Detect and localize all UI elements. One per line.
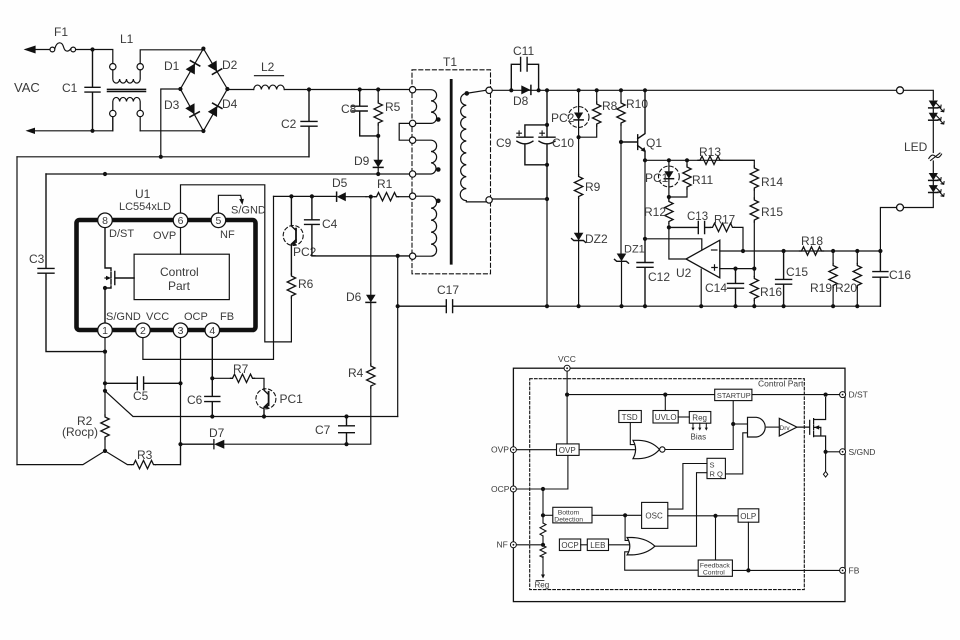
- svg-text:C2: C2: [281, 117, 297, 131]
- svg-text:R3: R3: [137, 448, 153, 462]
- svg-text:NF: NF: [220, 229, 235, 241]
- svg-text:C6: C6: [187, 393, 203, 407]
- svg-text:C11: C11: [513, 44, 534, 58]
- block Bottom Detection: [543, 514, 553, 516]
- wire: pin1 source net: [104, 338, 106, 391]
- svg-text:Feedback: Feedback: [700, 562, 730, 569]
- svg-text:Q: Q: [717, 470, 723, 479]
- svg-text:R15: R15: [761, 205, 783, 219]
- wire: inverting input line: [720, 250, 881, 252]
- svg-text:U2: U2: [676, 266, 692, 280]
- svg-text:R8: R8: [602, 99, 618, 113]
- svg-text:R7: R7: [233, 362, 249, 376]
- svg-text:R12: R12: [644, 205, 666, 219]
- svg-text:PC2: PC2: [551, 111, 575, 125]
- svg-text:R14: R14: [761, 175, 783, 189]
- wire: AC line bottom: [35, 117, 203, 131]
- U1 control part box: [134, 254, 229, 299]
- wire: D/ST net (drain line): [46, 173, 409, 175]
- svg-text:C10: C10: [552, 136, 574, 150]
- svg-text:D3: D3: [164, 98, 180, 112]
- svg-text:C17: C17: [437, 283, 459, 297]
- wire: S/GND diagonal and line: [105, 391, 398, 417]
- svg-text:C13: C13: [687, 211, 708, 223]
- svg-text:D5: D5: [332, 176, 348, 190]
- wire: left vertical bus: [16, 157, 18, 465]
- svg-text:R11: R11: [692, 173, 713, 187]
- svg-text:OSC: OSC: [645, 512, 663, 521]
- resistor R9: [578, 137, 580, 174]
- svg-text:Q1: Q1: [646, 136, 662, 150]
- wire: pin3 OCP net: [180, 338, 182, 465]
- svg-text:Bottom: Bottom: [558, 509, 580, 516]
- svg-text:C16: C16: [889, 268, 911, 282]
- capacitor C4: [305, 196, 410, 256]
- wire: NOR output to AND: [665, 402, 733, 450]
- LED D-led3: [932, 161, 934, 173]
- fuse F1: [50, 43, 76, 52]
- svg-text:5: 5: [215, 215, 221, 227]
- wire: OSC out to OLP and feedback: [668, 515, 738, 517]
- svg-text:R18: R18: [801, 234, 823, 248]
- block UVLO: [653, 411, 678, 424]
- MOSFET (block): [797, 398, 826, 452]
- block STARTUP: [715, 389, 752, 400]
- resistor R5: [377, 90, 379, 102]
- resistor R7: [212, 377, 230, 379]
- U1 pin 8: [98, 213, 113, 228]
- wire: rectified DC rail to transformer: [227, 89, 409, 91]
- block Reg: [689, 412, 711, 424]
- wire: LEB to OR: [609, 544, 630, 546]
- diode D8: [521, 85, 530, 94]
- diode D3: [185, 103, 199, 117]
- svg-text:OCP: OCP: [491, 484, 510, 494]
- diode D4: [208, 103, 222, 117]
- photocoupler PC2 phototransistor: [291, 196, 296, 274]
- svg-text:C7: C7: [315, 423, 331, 437]
- photocoupler PC1 LED: [668, 160, 670, 171]
- svg-text:VCC: VCC: [146, 311, 169, 323]
- wire: VCC internal: [566, 371, 568, 444]
- T1 primary winding upper: [416, 90, 437, 124]
- resistor R19: [832, 251, 834, 264]
- block diagram outer box: [513, 368, 845, 601]
- svg-text:D4: D4: [222, 97, 238, 111]
- wire: AC line top: [26, 46, 113, 63]
- svg-text:R13: R13: [699, 145, 721, 159]
- svg-text:LED: LED: [904, 140, 928, 154]
- svg-text:OVP: OVP: [491, 445, 509, 455]
- wire: NF internal ladder: [542, 489, 544, 576]
- svg-text:C8: C8: [341, 102, 357, 116]
- transformer T1 core: [450, 80, 453, 263]
- wire: feedback loop to OR: [625, 552, 699, 570]
- svg-text:L2: L2: [261, 60, 275, 74]
- wire: bridge negative to ground rail: [161, 89, 181, 157]
- wire: Q to AND: [725, 433, 747, 474]
- op-amp U2 supply line: [645, 239, 702, 250]
- svg-text:C12: C12: [648, 270, 670, 284]
- U1 pin 6: [173, 213, 188, 228]
- svg-text:C15: C15: [786, 265, 808, 279]
- resistor R15: [750, 198, 758, 222]
- svg-text:R20: R20: [835, 281, 857, 295]
- transistor Q1: [621, 90, 645, 160]
- resistor R12: [668, 197, 670, 200]
- svg-text:PC2: PC2: [293, 245, 317, 259]
- svg-text:OCP: OCP: [184, 311, 208, 323]
- svg-text:LEB: LEB: [590, 541, 605, 550]
- svg-text:3: 3: [178, 325, 184, 337]
- resistor R11: [686, 160, 688, 165]
- svg-text:D8: D8: [513, 94, 529, 108]
- svg-text:C4: C4: [322, 217, 338, 231]
- wire: startup rail: [567, 394, 840, 396]
- common-mode choke L1: [108, 50, 204, 131]
- svg-text:D6: D6: [346, 290, 362, 304]
- svg-text:S: S: [710, 460, 715, 469]
- svg-text:8: 8: [102, 215, 108, 227]
- pin D/ST (block): [840, 392, 846, 398]
- svg-text:Control: Control: [160, 265, 199, 279]
- resistor R14: [750, 166, 758, 190]
- svg-text:F1: F1: [54, 25, 68, 39]
- svg-text:1: 1: [102, 325, 108, 337]
- block OLP: [738, 509, 759, 522]
- wire: TSD to NOR: [630, 423, 635, 445]
- block OSC: [642, 502, 668, 528]
- capacitor C3: [38, 174, 105, 352]
- svg-text:Detection: Detection: [554, 516, 583, 523]
- svg-text:NF: NF: [497, 540, 508, 550]
- svg-text:R4: R4: [348, 366, 364, 380]
- wire: OVP box output to NOR: [579, 449, 635, 451]
- svg-text:LC554xLD: LC554xLD: [119, 201, 171, 213]
- wire: primary section link: [399, 123, 409, 140]
- capacitor C17: [398, 300, 547, 313]
- resistor R17: [711, 223, 735, 231]
- capacitor C16: [873, 251, 888, 306]
- resistor R2 (Rocp): [104, 391, 106, 415]
- node: C1 taps: [90, 47, 94, 51]
- svg-text:OCP: OCP: [561, 541, 578, 550]
- svg-text:T1: T1: [443, 55, 457, 69]
- diode D1: [186, 61, 200, 75]
- svg-text:D2: D2: [222, 58, 238, 72]
- U1 internal MOSFET: [105, 228, 134, 323]
- block OCP comparator: [559, 539, 580, 551]
- svg-text:R6: R6: [298, 277, 314, 291]
- svg-text:Control: Control: [703, 569, 725, 576]
- block TSD: [619, 411, 642, 423]
- LED D-led4: [932, 180, 934, 185]
- node: bridge vertices: [201, 47, 205, 51]
- svg-text:6: 6: [178, 215, 184, 227]
- svg-text:VAC: VAC: [14, 80, 40, 95]
- svg-text:Reg: Reg: [535, 581, 550, 590]
- T1 primary winding lower: [416, 140, 437, 174]
- svg-text:D/ST: D/ST: [109, 228, 134, 240]
- wire: VCC riser to pin2: [143, 196, 274, 359]
- svg-text:Reg: Reg: [692, 414, 707, 423]
- resistor R16: [753, 269, 755, 277]
- block Feedback Control: [698, 560, 732, 576]
- svg-text:R9: R9: [585, 180, 601, 194]
- wire: FB line: [732, 569, 839, 571]
- pin S/GND (block): [826, 451, 840, 453]
- svg-text:(Rocp): (Rocp): [62, 425, 98, 439]
- gate OR (ocp logic): [627, 538, 655, 555]
- source sense diamond: [825, 452, 827, 472]
- svg-text:UVLO: UVLO: [655, 413, 677, 422]
- svg-text:D1: D1: [164, 59, 180, 73]
- wire: bottom detection to OSC: [592, 514, 642, 516]
- resistor R20: [856, 251, 858, 264]
- diode D6: [370, 197, 372, 295]
- resistor R13: [698, 156, 722, 164]
- svg-text:FB: FB: [220, 311, 234, 323]
- wire: S/GND riser to C17 node: [397, 256, 399, 417]
- svg-text:C5: C5: [133, 389, 149, 403]
- driver Drv: [766, 426, 779, 428]
- capacitor C11: [511, 58, 538, 91]
- zener DZ2: [572, 233, 586, 243]
- Bias taps: [693, 423, 706, 429]
- resistor R3: [132, 460, 156, 468]
- svg-text:S/GND: S/GND: [849, 447, 876, 457]
- diode D7: [181, 440, 214, 449]
- svg-text:R5: R5: [385, 100, 401, 114]
- svg-text:R19: R19: [810, 281, 832, 295]
- U1 pin 2: [136, 323, 151, 338]
- bridge rectifier diamond wires: [180, 49, 227, 131]
- LED D-led1: [929, 101, 938, 108]
- node: kelvin junction under R2: [17, 451, 132, 465]
- svg-text:2: 2: [140, 325, 146, 337]
- svg-text:TSD: TSD: [622, 413, 638, 422]
- output terminal top: [897, 87, 904, 94]
- wire: VCC node line: [274, 195, 337, 197]
- svg-text:C1: C1: [62, 81, 78, 95]
- svg-text:4: 4: [209, 325, 215, 337]
- T1 secondary winding: [460, 90, 486, 202]
- svg-text:R1: R1: [377, 177, 393, 191]
- svg-text:Part: Part: [168, 279, 191, 293]
- U1 pin 3: [173, 323, 188, 338]
- svg-text:C9: C9: [496, 136, 512, 150]
- svg-text:Bias: Bias: [691, 433, 707, 442]
- svg-text:U1: U1: [135, 187, 151, 201]
- resistor R18: [800, 247, 824, 255]
- zener DZ1: [620, 142, 622, 254]
- pin FB (block): [840, 567, 846, 573]
- svg-text:DZ2: DZ2: [585, 232, 608, 246]
- svg-text:D/ST: D/ST: [849, 390, 868, 400]
- diode D9: [377, 136, 379, 160]
- svg-text:S/GND: S/GND: [231, 205, 266, 217]
- svg-text:PC1: PC1: [645, 171, 669, 185]
- wire: secondary top rail: [493, 89, 897, 91]
- svg-text:DZ1: DZ1: [624, 244, 645, 256]
- IC U1 body: [77, 220, 256, 330]
- electrolytic C9: [517, 90, 547, 165]
- wire: non-inverting input line: [720, 268, 755, 270]
- svg-text:L1: L1: [120, 32, 134, 46]
- resistor R6: [287, 274, 295, 298]
- svg-text:STARTUP: STARTUP: [717, 391, 751, 400]
- wire: OR output to R input: [655, 473, 707, 547]
- wire: OSC to S input: [668, 464, 707, 510]
- capacitor C1: [85, 50, 100, 131]
- wire: reference node line: [645, 159, 754, 161]
- svg-text:Drv: Drv: [780, 425, 791, 432]
- wire: secondary ground rail: [547, 305, 880, 307]
- inductor L2: [254, 76, 285, 90]
- gate NOR (OVP logic): [633, 440, 660, 458]
- LED D-led2: [932, 108, 934, 113]
- capacitor C15: [776, 251, 792, 306]
- svg-text:OVP: OVP: [559, 446, 576, 455]
- diode D5: [336, 192, 338, 201]
- U1 pin 1: [98, 323, 113, 338]
- svg-text:D7: D7: [209, 426, 225, 440]
- svg-text:C3: C3: [29, 252, 45, 266]
- svg-text:C14: C14: [705, 281, 727, 295]
- block LEB: [587, 539, 608, 551]
- resistor R8: [596, 90, 598, 102]
- diode D2: [207, 60, 221, 74]
- capacitor C12: [637, 239, 653, 306]
- T1 auxiliary winding: [416, 196, 437, 256]
- photocoupler PC1 phototransistor: [264, 389, 269, 417]
- flip-flop S R Q: [707, 458, 725, 478]
- wire: primary ground rail y156.8: [17, 156, 309, 158]
- svg-text:FB: FB: [849, 565, 860, 575]
- output terminal bottom: [897, 204, 904, 211]
- block diagram control part dashed box: [530, 379, 805, 590]
- block OVP: [516, 449, 556, 451]
- transformer T1 dashed box: [412, 70, 491, 274]
- svg-text:OLP: OLP: [740, 512, 756, 521]
- resistor R4: [370, 302, 372, 364]
- electrolytic C10: [539, 137, 555, 199]
- svg-text:R17: R17: [714, 215, 735, 227]
- op-amp U2 ground pin: [700, 269, 702, 306]
- capacitor C7: [339, 417, 355, 445]
- U1 pin 4: [205, 323, 220, 338]
- svg-text:R: R: [710, 470, 716, 479]
- U1 pin 5: [211, 213, 226, 228]
- NF to S/GND hook with arrow: [218, 195, 241, 213]
- resistor R10: [620, 90, 622, 101]
- photocoupler PC2 LED: [578, 90, 580, 112]
- op-amp U2: [669, 227, 686, 259]
- capacitor C8: [352, 90, 378, 136]
- wire: pin6 to control part: [180, 228, 182, 255]
- capacitor C13: [669, 221, 711, 233]
- svg-text:Control Part: Control Part: [758, 379, 804, 389]
- capacitor C6: [205, 338, 220, 417]
- wire: OLP to FB line: [747, 522, 749, 570]
- capacitor C2: [301, 90, 317, 157]
- capacitor C14: [728, 269, 744, 307]
- LED string break mark: [929, 154, 942, 158]
- svg-text:OVP: OVP: [153, 230, 176, 242]
- svg-text:S/GND: S/GND: [106, 311, 141, 323]
- gate AND (driver logic): [748, 417, 766, 437]
- svg-text:D9: D9: [354, 154, 370, 168]
- svg-text:VCC: VCC: [558, 354, 576, 364]
- capacitor C5: [105, 377, 181, 390]
- wire: bottom detection drop to OR: [625, 515, 629, 540]
- resistor R1: [369, 195, 373, 199]
- wire: secondary return: [493, 199, 547, 306]
- svg-text:PC1: PC1: [280, 392, 304, 406]
- svg-text:R16: R16: [760, 285, 782, 299]
